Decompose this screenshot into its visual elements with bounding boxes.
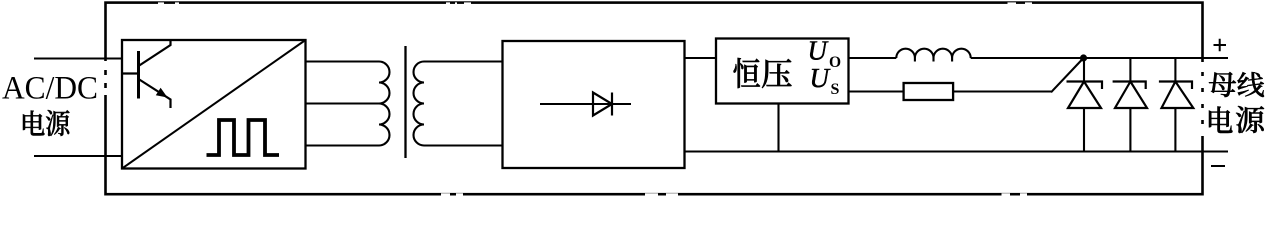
transistor Q1 emitter	[139, 79, 171, 108]
diode D4 cathode bar	[611, 93, 613, 116]
wire AC input + (top left lead)	[34, 57, 122, 59]
svg-text:S: S	[831, 81, 840, 98]
wire top bus +	[971, 57, 1228, 59]
diode D1 anode lead	[1083, 108, 1085, 152]
wire AC input - (bottom left lead)	[34, 155, 122, 157]
transistor Q1 emitter arrow	[156, 88, 168, 98]
diode D4 symbol lead	[540, 103, 631, 105]
transistor Q1 collector	[139, 40, 171, 66]
transformer T1 secondary winding	[414, 62, 424, 146]
transistor Q1 base lead	[122, 72, 139, 74]
wire resistor to switch	[953, 90, 1051, 92]
wire converter diagonal divider	[122, 40, 306, 169]
label Uo output pin	[808, 36, 842, 71]
wire Uo output lead	[849, 57, 897, 59]
diode D3 anode lead	[1174, 108, 1176, 152]
wire rectifier to regulator	[685, 57, 717, 59]
diode D3 cathode bar	[1159, 82, 1192, 90]
svg-text:O: O	[829, 54, 841, 71]
transformer T1 primary winding	[379, 62, 390, 146]
label 恒压	[734, 58, 792, 88]
transformer T1 core	[404, 46, 406, 158]
op-amp U1 DC/DC converter box	[122, 40, 306, 169]
label + polarity	[1214, 39, 1227, 52]
wire bottom bus -	[685, 150, 1229, 152]
square wave pulse symbol	[207, 120, 280, 155]
diode D1 cathode lead	[1083, 58, 1085, 82]
diode D2 anode lead	[1129, 108, 1131, 152]
diode D2 cathode bar	[1113, 82, 1146, 90]
rectifier U2 box	[503, 41, 685, 168]
diode D1 triangle	[1068, 82, 1101, 109]
diode D3 triangle	[1162, 82, 1194, 109]
wire Us sense lead	[849, 90, 904, 92]
diode D3 cathode lead	[1174, 58, 1176, 82]
transistor Q1 base bar	[137, 51, 140, 99]
label AC/DC 电源 (input source)	[2, 71, 98, 136]
diode D4 triangle	[593, 93, 612, 116]
label Us sense pin	[810, 63, 840, 98]
wire secondary bottom lead	[424, 144, 503, 146]
resistor R1	[904, 83, 954, 100]
outer enclosure box	[106, 3, 1203, 195]
label 母线 电源 (bus source)	[1209, 72, 1264, 133]
wire secondary top lead	[424, 60, 503, 62]
switch S1 blade	[1051, 58, 1084, 92]
svg-text:U: U	[810, 63, 831, 93]
wire primary top lead	[306, 60, 380, 62]
diode D2 cathode lead	[1129, 58, 1131, 82]
node junction dot	[1080, 54, 1087, 61]
label - polarity	[1211, 165, 1225, 167]
wire primary bottom lead	[306, 144, 380, 146]
wire regulator ground return	[777, 104, 779, 152]
wire primary center tap lead	[306, 102, 381, 104]
scan artifact gaps on borders	[106, 4, 1203, 195]
svg-text:U: U	[808, 36, 829, 66]
diode D1 cathode bar	[1067, 82, 1103, 90]
inductor L1	[896, 49, 970, 62]
op-amp U3 constant-voltage regulator box	[716, 39, 849, 104]
diode D2 triangle	[1115, 82, 1147, 109]
svg-text:AC/DC: AC/DC	[2, 71, 98, 107]
